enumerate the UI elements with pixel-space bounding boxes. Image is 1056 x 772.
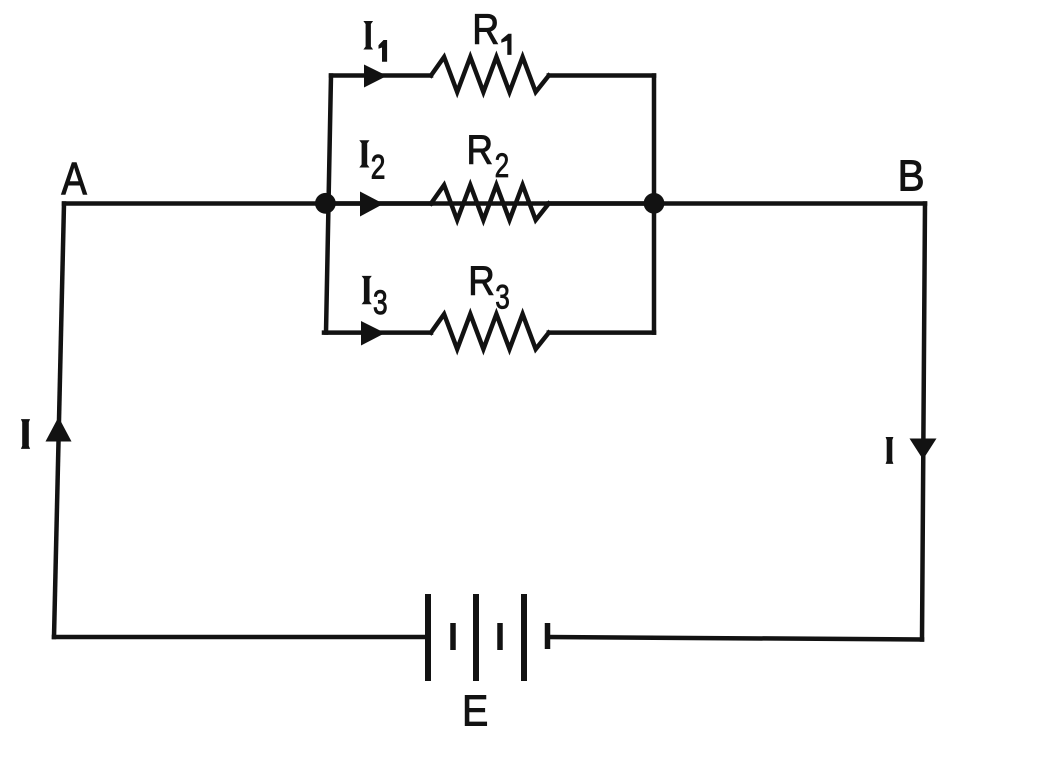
svg-text:B: B xyxy=(898,151,925,200)
svg-text:3: 3 xyxy=(495,278,510,316)
svg-text:E: E xyxy=(462,687,488,736)
svg-text:R: R xyxy=(467,127,494,173)
svg-text:3: 3 xyxy=(373,284,388,322)
svg-text:2: 2 xyxy=(371,148,386,186)
svg-text:A: A xyxy=(61,153,87,204)
svg-text:2: 2 xyxy=(495,147,510,185)
svg-text:R: R xyxy=(468,258,495,304)
svg-text:R: R xyxy=(472,5,499,52)
